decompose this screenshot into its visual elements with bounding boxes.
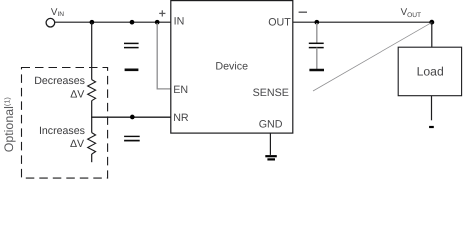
svg-text:OUT: OUT <box>268 16 291 28</box>
wire: node A down to resistor chain <box>91 22 93 79</box>
load return tick mark <box>429 126 434 128</box>
svg-text:EN: EN <box>173 84 188 96</box>
wire: OUT pin to VOUT node <box>293 21 432 23</box>
minus polarity mark at OUT <box>299 11 307 13</box>
wire: load bottom lead <box>431 96 433 121</box>
dashed optional enclosure box <box>22 68 108 179</box>
node F: VOUT junction <box>429 20 434 25</box>
wire: GND pin lead <box>269 133 271 155</box>
node E: output capacitor junction <box>314 20 319 25</box>
wire: VOUT node down to load <box>431 22 433 47</box>
input capacitor plates <box>124 42 139 44</box>
output capacitor top lead (gray) <box>316 23 318 43</box>
terminal VIN <box>46 18 55 27</box>
op-amp/regulator device box U1 <box>171 1 293 134</box>
output capacitor plates <box>309 42 324 44</box>
wire: EN tie (gray) from node C down and into EN pin <box>157 23 170 89</box>
wire: VIN terminal to IN pin <box>55 21 171 23</box>
svg-text:Decreases: Decreases <box>34 75 85 87</box>
NR capacitor plates <box>124 135 140 137</box>
node B: input capacitor junction <box>130 20 135 25</box>
svg-text:SENSE: SENSE <box>253 87 289 99</box>
resistor R-decreases (Decreases dV) <box>88 80 96 101</box>
output capacitor ground bar <box>309 69 324 72</box>
svg-text:Load: Load <box>417 65 444 79</box>
ground symbol <box>265 155 277 157</box>
svg-text:ΔV: ΔV <box>70 138 85 150</box>
output capacitor bottom lead (gray) <box>316 48 318 69</box>
node C: EN tie junction <box>155 20 160 25</box>
svg-text:NR: NR <box>173 112 189 124</box>
svg-text:IN: IN <box>174 16 185 28</box>
wire: NR net from resistor tee to NR pin <box>91 116 171 118</box>
svg-text:Device: Device <box>215 61 248 73</box>
svg-text:Increases: Increases <box>39 125 85 137</box>
plus polarity mark at IN <box>159 10 165 16</box>
wire: bottom lead of lower resistor <box>91 154 93 162</box>
wire: between resistors (tee at NR) <box>91 101 93 133</box>
sense leader diagonal line <box>313 22 432 91</box>
load box <box>398 47 461 95</box>
input capacitor ground bar <box>125 69 139 72</box>
svg-text:ΔV: ΔV <box>70 88 85 100</box>
node D: NR capacitor junction <box>130 115 135 120</box>
svg-text:GND: GND <box>259 118 283 130</box>
node A: resistor tap junction <box>90 20 95 25</box>
resistor R-increases (Increases dV) <box>88 133 96 155</box>
